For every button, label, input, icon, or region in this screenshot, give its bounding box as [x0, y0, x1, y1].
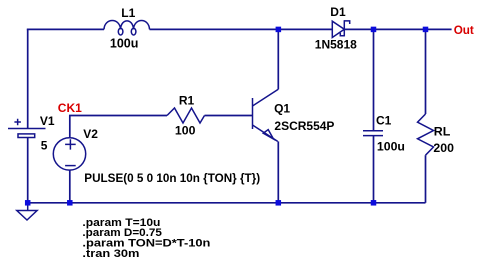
wire C1 top vertical — [373, 29, 375, 130]
node collector top junction — [276, 27, 282, 33]
svg-text:R1: R1 — [179, 94, 195, 108]
wire V2 bottom — [69, 170, 71, 203]
svg-text:100u: 100u — [377, 139, 405, 153]
wire top rail left segment — [27, 28, 104, 30]
wire top rail right segment — [344, 28, 451, 30]
svg-text:5: 5 — [41, 139, 48, 153]
transistor Q1 — [253, 89, 279, 141]
svg-text:Q1: Q1 — [274, 101, 290, 115]
wire CK1 vertical — [69, 116, 71, 138]
resistor R1 — [167, 108, 205, 123]
wire top rail middle segment — [150, 28, 333, 30]
wire bottom rail — [28, 202, 426, 204]
diode D1 — [332, 20, 349, 37]
wire C1 bottom vertical — [373, 136, 375, 203]
svg-text:C1: C1 — [376, 114, 392, 128]
node ground junction — [25, 200, 31, 206]
svg-text:V1: V1 — [40, 114, 55, 128]
ground — [17, 203, 37, 220]
capacitor C1 — [363, 131, 383, 136]
svg-text:200: 200 — [433, 141, 454, 155]
wire RL top vertical — [425, 29, 427, 114]
node V2 bottom junction — [67, 200, 73, 206]
wire RL bottom vertical — [425, 155, 427, 203]
svg-text:100u: 100u — [110, 36, 138, 50]
svg-text:Out: Out — [454, 24, 474, 37]
svg-text:.tran 30m: .tran 30m — [82, 248, 139, 260]
svg-text:PULSE(0 5 0 10n 10n {TON} {T}): PULSE(0 5 0 10n 10n {TON} {T}) — [84, 172, 260, 185]
svg-text:RL: RL — [434, 124, 451, 138]
svg-text:1N5818: 1N5818 — [315, 37, 357, 51]
svg-text:100: 100 — [175, 124, 196, 138]
wire top-left vertical — [27, 29, 29, 128]
wire emitter vertical — [277, 141, 279, 202]
svg-text:2SCR554P: 2SCR554P — [274, 119, 334, 133]
svg-text:L1: L1 — [121, 6, 135, 20]
wire CK1 horizontal — [69, 115, 167, 117]
svg-text:D1: D1 — [330, 5, 346, 19]
wire collector vertical — [277, 29, 279, 89]
node RL top junction — [423, 27, 429, 33]
inductor L1 — [104, 21, 150, 35]
svg-text:CK1: CK1 — [58, 101, 82, 115]
wire battery bottom to bottom rail — [27, 138, 29, 203]
voltage source V2 — [53, 138, 85, 170]
wire R1 to base — [205, 115, 253, 117]
resistor RL — [418, 114, 434, 155]
node C1 top junction — [371, 27, 377, 33]
battery V1 — [8, 119, 46, 138]
svg-text:V2: V2 — [83, 127, 98, 141]
node emitter bottom junction — [276, 200, 282, 206]
node C1 bottom junction — [371, 200, 377, 206]
